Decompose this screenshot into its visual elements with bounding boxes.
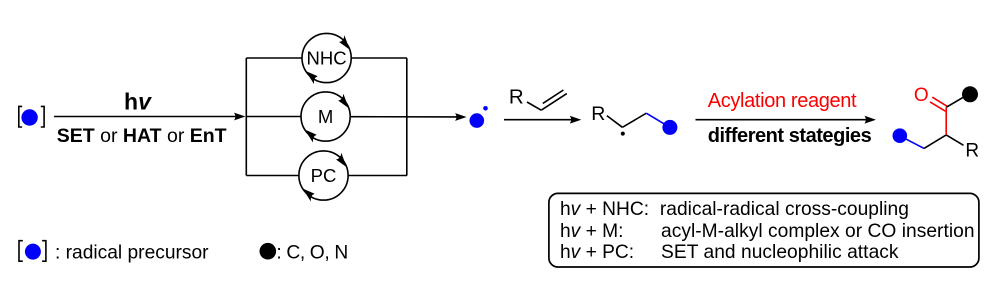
blue bond CH2-dot of chain radical — [646, 113, 669, 127]
bond R-CH of chain radical — [607, 116, 623, 128]
product bond C(O)-black dot — [946, 95, 968, 108]
product blue bond dot-CH2 — [901, 136, 925, 148]
svg-text:Acylation reagent: Acylation reagent — [708, 90, 857, 112]
svg-text:R: R — [965, 141, 979, 162]
product bond CH-R — [946, 135, 963, 145]
svg-text:hv: hv — [124, 89, 152, 115]
PC cycle arrowhead lower left — [303, 189, 315, 202]
M cycle circle — [301, 92, 350, 141]
wire PC row left stub — [246, 175, 299, 177]
NHC cycle circle — [302, 33, 351, 82]
wire right vertical of branch bracket — [406, 58, 408, 176]
key black dot — [260, 243, 277, 260]
bracket right of radical precursor — [41, 106, 44, 127]
wire M row right to arrow 2 — [350, 116, 458, 118]
alkyl radical blue dot — [470, 113, 485, 128]
legend box — [549, 193, 979, 267]
product bond CH2-CH — [924, 135, 946, 149]
radical electron dot on blue dot — [483, 106, 488, 111]
arrow 1 head — [234, 113, 246, 121]
blue dot of chain radical — [662, 120, 677, 135]
svg-text:PC: PC — [311, 165, 337, 186]
wire NHC row left stub — [246, 57, 302, 59]
PC cycle circle — [299, 151, 348, 200]
product red bond CH-C(O) — [945, 107, 947, 135]
bracket left of radical precursor — [19, 106, 22, 127]
M cycle arrowhead lower left — [305, 130, 317, 143]
svg-text:SET and nucleophilic attack: SET and nucleophilic attack — [661, 242, 899, 263]
key bracket left — [19, 241, 23, 262]
svg-text:acyl-M-alkyl complex or CO ins: acyl-M-alkyl complex or CO insertion — [661, 221, 975, 242]
radical electron dot of chain radical — [621, 132, 625, 136]
wire M row left stub — [246, 116, 301, 118]
key radical precursor blue dot — [25, 244, 41, 260]
product C=O double bond line 2 — [930, 102, 945, 111]
alkene bond R-CH — [527, 102, 541, 110]
PC cycle arrowhead upper right — [336, 153, 347, 167]
alkene double bond line 2 — [543, 90, 564, 103]
svg-text:O: O — [914, 85, 929, 106]
arrow 1 shaft — [54, 116, 237, 118]
alkene double bond line 1 — [541, 94, 567, 111]
svg-text:NHC: NHC — [307, 47, 347, 68]
svg-text:hv + PC:: hv + PC: — [560, 242, 634, 263]
arrowhead into radical — [455, 113, 467, 121]
svg-text:hv + NHC:: hv + NHC: — [560, 199, 649, 220]
svg-text:different stategies: different stategies — [708, 125, 872, 147]
svg-text:: C, O, N: : C, O, N — [276, 243, 348, 264]
product C=O double bond line 1 — [932, 97, 947, 106]
radical precursor blue dot — [21, 109, 37, 125]
arrow 3 shaft — [696, 119, 868, 121]
arrow 2 shaft — [504, 119, 573, 121]
svg-text:: radical precursor: : radical precursor — [55, 243, 209, 264]
M cycle arrowhead upper right — [338, 94, 349, 108]
NHC cycle arrowhead lower left — [306, 71, 318, 84]
svg-text:R: R — [509, 85, 524, 108]
arrow 2 head — [570, 116, 582, 124]
key bracket right — [42, 241, 46, 262]
svg-text:SET or HAT or EnT: SET or HAT or EnT — [57, 125, 227, 147]
bond CH-CH2 of chain radical — [622, 113, 646, 127]
svg-text:R: R — [591, 103, 605, 125]
arrow 3 head — [865, 116, 877, 124]
NHC cycle arrowhead upper right — [339, 35, 350, 49]
wire NHC row right stub — [351, 57, 407, 59]
svg-text:radical-radical cross-coupling: radical-radical cross-coupling — [660, 199, 909, 220]
product black dot — [962, 86, 978, 102]
svg-text:hv + M:: hv + M: — [560, 221, 623, 242]
wire PC row right stub — [348, 175, 407, 177]
svg-text:M: M — [318, 106, 333, 127]
wire left vertical of branch bracket — [245, 58, 247, 176]
product blue dot — [893, 128, 908, 143]
